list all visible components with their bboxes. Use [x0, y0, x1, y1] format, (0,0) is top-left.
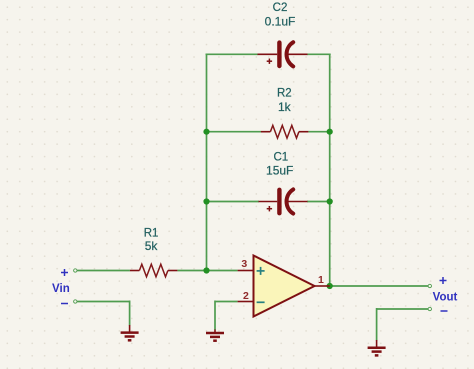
label R1 value 5k	[145, 239, 159, 253]
node Vin minus wire end	[74, 300, 77, 303]
svg-text:1: 1	[318, 274, 324, 286]
svg-text:1k: 1k	[278, 100, 292, 114]
svg-text:Vout: Vout	[433, 291, 458, 303]
op-amp inverting input mark	[257, 301, 265, 303]
ground below Vout	[368, 340, 386, 355]
wire Vin plus to R1	[77, 270, 130, 272]
resistor R2	[261, 125, 309, 138]
wire op-amp pin 2 to ground	[215, 301, 238, 331]
label C1 reference	[273, 152, 288, 164]
op-amp non-inverting input mark	[257, 267, 265, 275]
capacitor C2	[258, 42, 308, 66]
junction at left rail C1 row	[203, 198, 209, 204]
svg-text:5k: 5k	[145, 239, 159, 253]
label C1 value 15uF	[266, 163, 293, 177]
wire op-amp output to Vout	[330, 285, 429, 287]
ground below op-amp pin 2	[206, 330, 224, 341]
label Vout	[433, 291, 458, 303]
svg-text:0.1uF: 0.1uF	[265, 15, 296, 29]
ground below Vin	[121, 325, 139, 340]
pin number 2	[243, 290, 249, 302]
label R2 value 1k	[278, 100, 292, 114]
svg-text:R2: R2	[277, 87, 292, 99]
wire left feedback rail	[206, 54, 208, 270]
junction at left rail R2 row	[203, 129, 209, 135]
label Vin plus sign	[61, 269, 68, 276]
svg-text:R1: R1	[144, 227, 159, 239]
wire C1 row	[207, 201, 330, 203]
label C2 value 0.1uF	[265, 15, 296, 29]
svg-text:15uF: 15uF	[266, 163, 293, 177]
svg-text:2: 2	[243, 290, 249, 302]
wire Vin minus to ground	[77, 301, 130, 326]
svg-text:3: 3	[241, 258, 247, 270]
label R2 reference	[277, 87, 292, 99]
pin number 1	[318, 274, 324, 286]
node Vout plus wire end	[428, 284, 431, 287]
label Vout plus sign	[440, 277, 447, 284]
label C2 reference	[273, 2, 288, 14]
label Vin	[52, 283, 70, 295]
junction at right rail R2 row	[327, 129, 333, 135]
svg-text:C1: C1	[273, 152, 288, 164]
junction at left rail input node	[203, 267, 209, 273]
svg-text:C2: C2	[273, 2, 288, 14]
resistor R1	[130, 264, 178, 277]
wire R1 to op-amp pin 3	[177, 270, 237, 272]
capacitor C1	[259, 189, 308, 213]
wire right feedback rail	[329, 54, 331, 286]
pin number 3	[241, 258, 247, 270]
junction at right rail C1 row	[327, 198, 333, 204]
wire C2 row	[206, 53, 331, 55]
label R1 reference	[144, 227, 159, 239]
op-amp U1	[238, 256, 330, 317]
label Vin minus sign	[61, 303, 68, 305]
wire R2 row	[207, 131, 330, 133]
label Vout minus sign	[441, 310, 448, 312]
svg-text:Vin: Vin	[52, 283, 70, 295]
wire Vout minus to ground	[377, 308, 429, 341]
node Vin plus wire end	[74, 269, 77, 272]
node Vout minus wire end	[428, 307, 431, 310]
junction at output node	[327, 283, 333, 289]
